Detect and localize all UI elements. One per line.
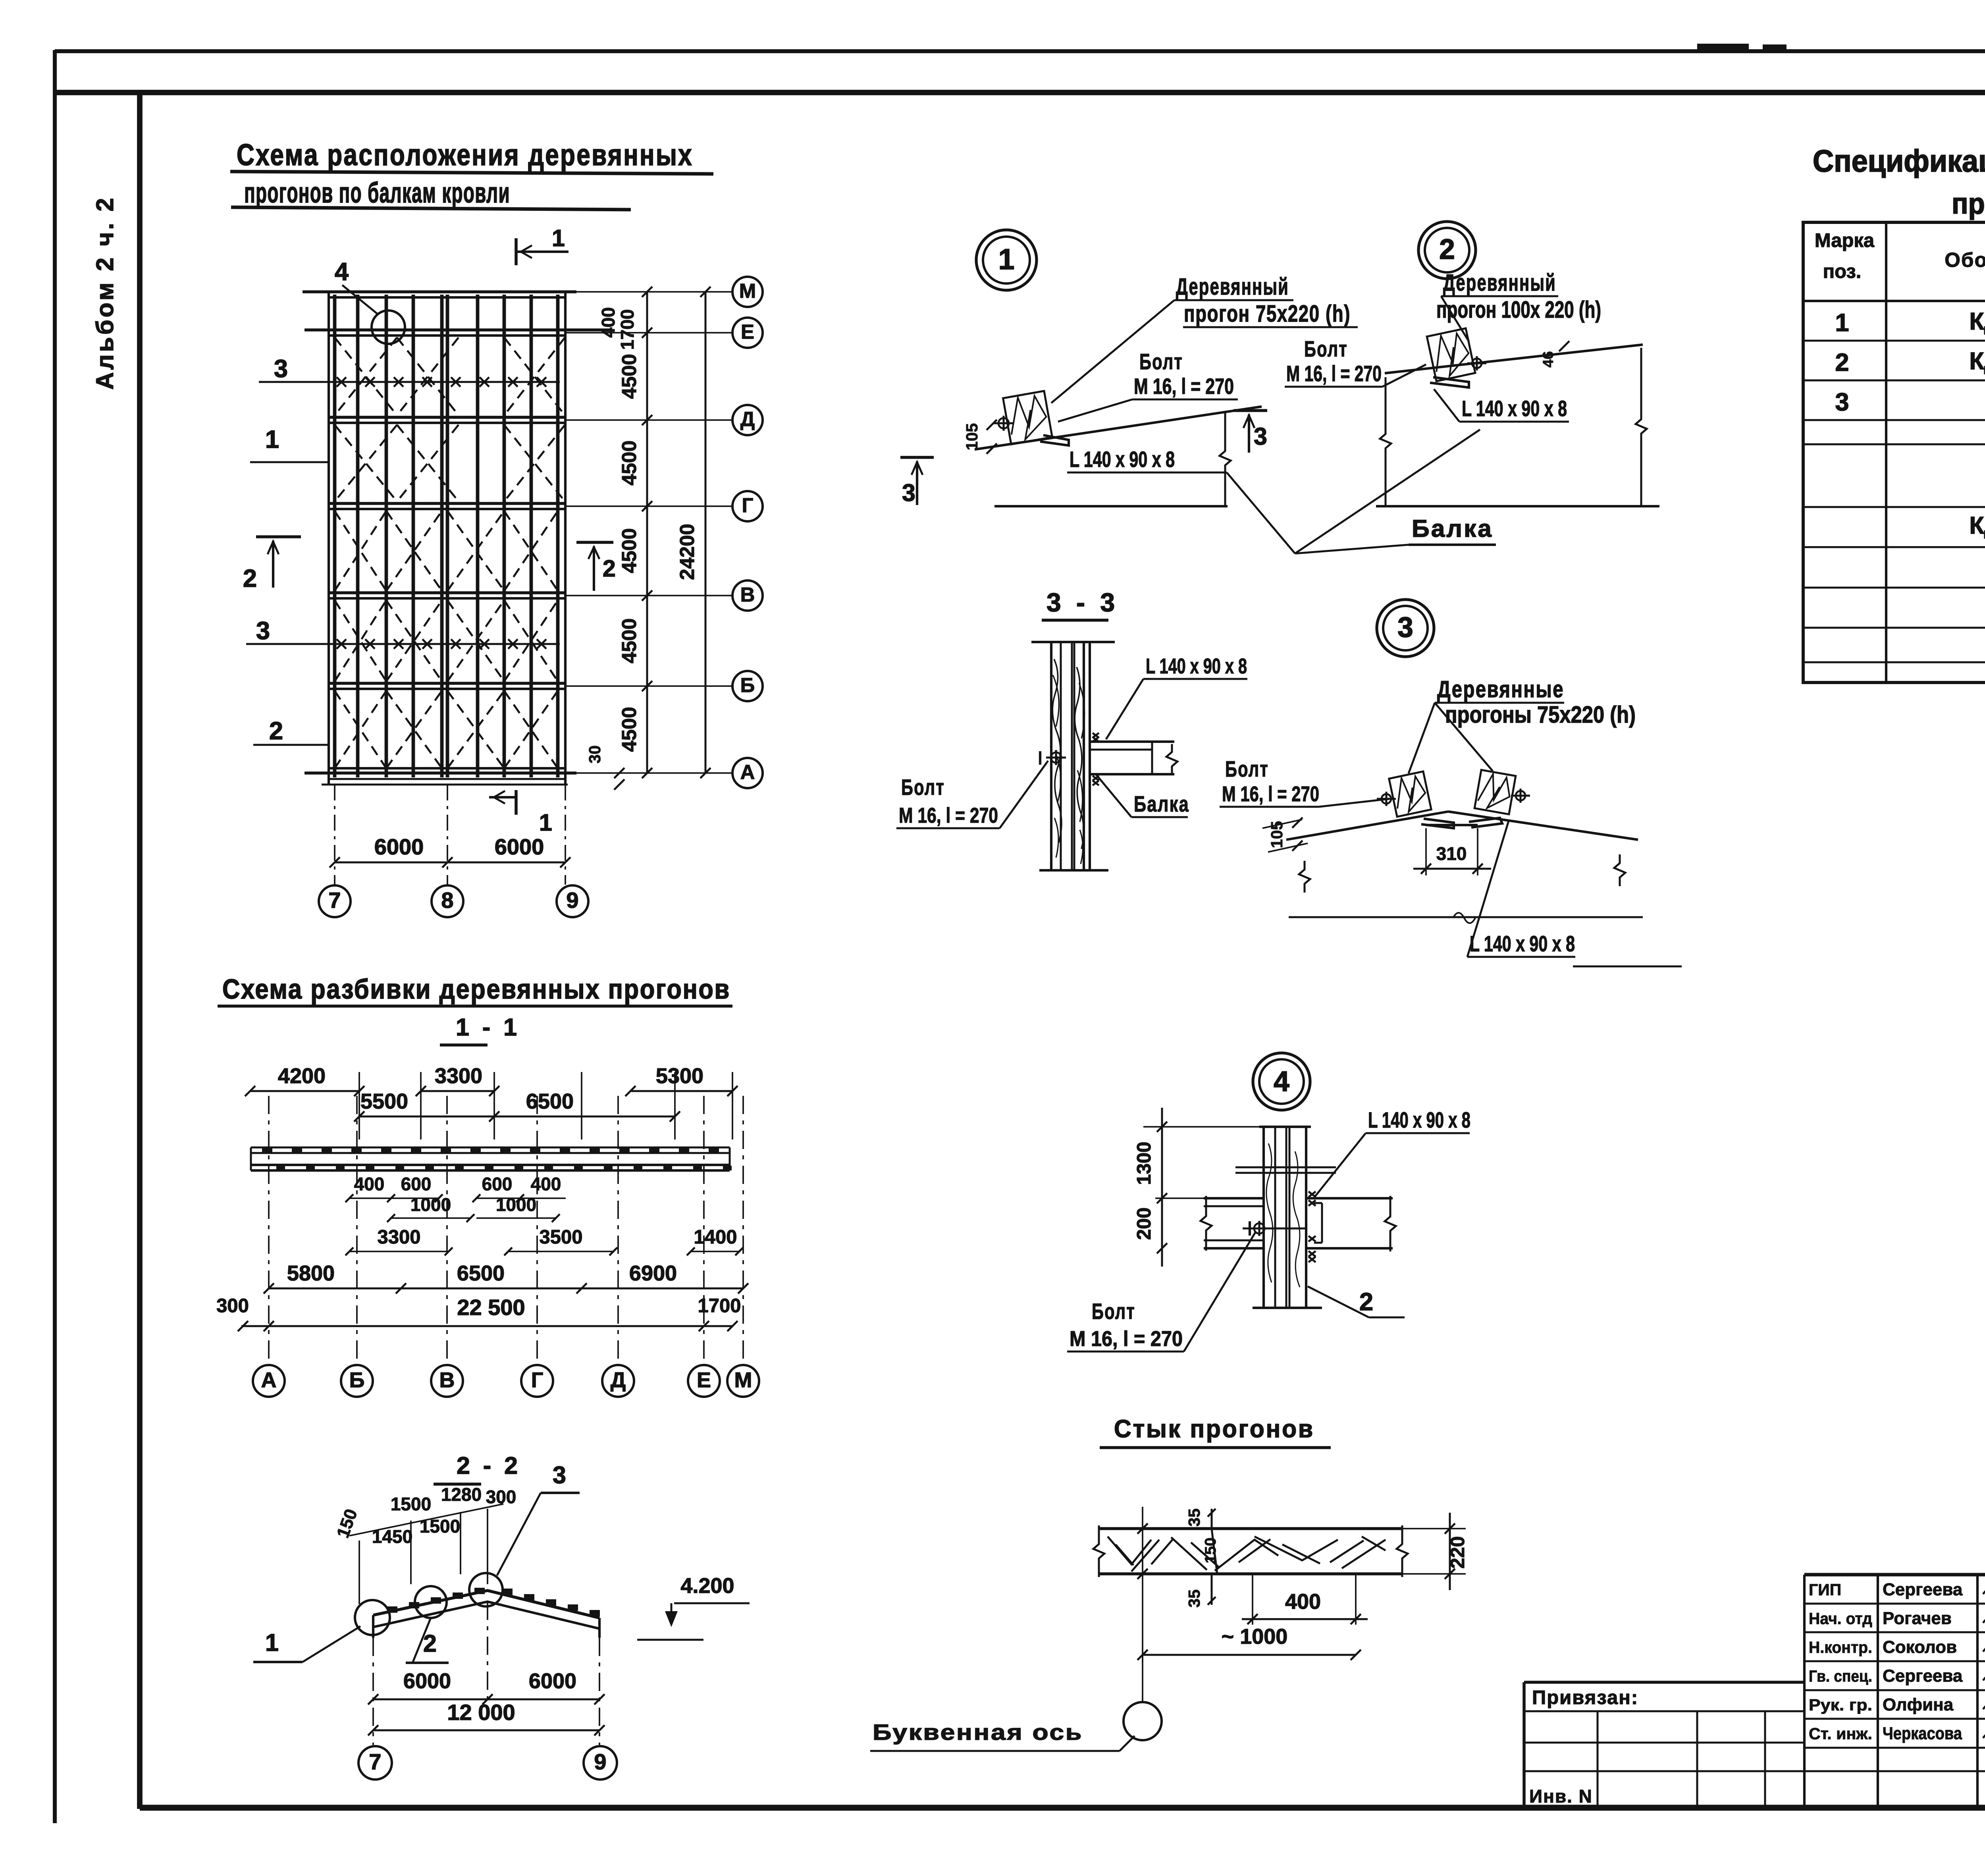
svg-text:Схема разбивки деревянных п: Схема разбивки деревянных прогонов [222,974,730,1005]
svg-text:А: А [261,1368,277,1392]
svg-text:М 16, l = 270: М 16, l = 270 [1222,782,1319,806]
svg-text:Деревянный: Деревянный [1443,270,1556,296]
svg-text:35: 35 [1185,1508,1203,1527]
svg-text:24200: 24200 [676,524,698,580]
svg-text:3: 3 [256,617,270,645]
svg-text:4: 4 [335,258,349,286]
svg-text:7: 7 [369,1749,381,1774]
svg-text:1700: 1700 [617,309,638,350]
svg-text:2: 2 [269,717,283,745]
svg-text:1300: 1300 [1133,1141,1155,1185]
svg-text:Деревянный: Деревянный [1176,274,1289,300]
svg-text:Соколов: Соколов [1883,1637,1957,1657]
svg-text:1450: 1450 [372,1526,412,1547]
svg-text:Деревянные: Деревянные [1437,676,1564,702]
svg-text:1: 1 [265,426,279,453]
svg-text:1 - 1: 1 - 1 [456,1014,520,1041]
svg-text:Спецификация к схеме рас: Спецификация к схеме расположения деревя… [1813,143,1985,178]
svg-text:Балка: Балка [1412,515,1493,542]
svg-text:5800: 5800 [287,1261,335,1285]
svg-text:Болт: Болт [1139,349,1183,374]
svg-text:200: 200 [1133,1207,1155,1240]
svg-text:1000: 1000 [410,1194,451,1215]
svg-text:Обозначение: Обозначение [1945,249,1985,271]
svg-text:4500: 4500 [618,440,640,485]
svg-text:М 16, l = 270: М 16, l = 270 [1134,374,1234,399]
svg-text:Г: Г [742,494,754,517]
svg-text:1500: 1500 [420,1516,460,1537]
svg-text:3: 3 [274,355,288,383]
svg-text:Н.контр.: Н.контр. [1809,1638,1872,1656]
svg-text:3: 3 [902,479,915,506]
svg-text:4500: 4500 [618,707,640,752]
svg-text:2 - 2: 2 - 2 [457,1452,521,1479]
svg-text:2: 2 [1439,234,1455,265]
svg-text:Рук. гр.: Рук. гр. [1809,1696,1872,1714]
svg-text:Инв. N: Инв. N [1529,1786,1593,1807]
svg-text:1500: 1500 [391,1494,431,1514]
svg-text:Болт: Болт [1225,756,1269,781]
svg-text:300: 300 [216,1295,249,1317]
svg-text:Сергеева: Сергеева [1883,1666,1963,1686]
svg-text:Е: Е [741,320,754,343]
svg-text:6000: 6000 [495,834,544,859]
svg-text:L 140 x 90 x 8: L 140 x 90 x 8 [1070,447,1175,472]
svg-text:300: 300 [486,1487,516,1507]
svg-text:7: 7 [328,888,341,913]
svg-text:1280: 1280 [441,1484,482,1505]
svg-text:400: 400 [531,1174,561,1194]
svg-text:КД-2: КД-2 [1970,347,1985,374]
svg-text:30: 30 [586,745,604,764]
svg-text:Олфина: Олфина [1883,1695,1954,1714]
svg-text:46: 46 [1540,351,1556,367]
svg-text:3: 3 [1835,388,1849,416]
svg-text:Д: Д [740,408,755,430]
svg-text:L 140 x 90 x 8: L 140 x 90 x 8 [1470,931,1575,956]
svg-text:2: 2 [1835,349,1849,376]
svg-text:5300: 5300 [656,1064,703,1088]
svg-text:150: 150 [1202,1537,1219,1563]
svg-text:Ст. инж.: Ст. инж. [1809,1725,1872,1743]
svg-text:Б: Б [349,1368,365,1392]
svg-text:6000: 6000 [403,1669,451,1693]
svg-text:6900: 6900 [629,1261,677,1285]
svg-text:Марка: Марка [1815,230,1875,251]
svg-text:600: 600 [482,1174,513,1194]
svg-text:L 140 x 90 x 8: L 140 x 90 x 8 [1462,396,1567,421]
svg-text:А: А [740,761,755,783]
svg-text:Балка: Балка [1134,791,1189,816]
svg-text:КД-2: КД-2 [1970,512,1985,539]
svg-text:КД-2: КД-2 [1970,308,1985,335]
svg-text:9: 9 [566,888,578,913]
svg-text:4: 4 [1274,1066,1289,1097]
svg-text:М: М [734,1368,752,1392]
svg-text:Е: Е [697,1368,711,1392]
svg-text:поз.: поз. [1823,261,1862,282]
svg-text:8: 8 [441,888,453,913]
svg-text:4.200: 4.200 [680,1574,734,1598]
svg-text:3: 3 [1397,612,1413,643]
svg-text:220: 220 [1447,1536,1469,1569]
svg-text:прогоны 75x220 (h): прогоны 75x220 (h) [1445,702,1636,728]
svg-text:3300: 3300 [435,1064,482,1088]
svg-text:4500: 4500 [618,528,640,573]
svg-text:Схема расположения деревянных: Схема расположения деревянных [237,138,693,172]
svg-text:4500: 4500 [618,354,640,399]
svg-text:М: М [739,280,756,302]
svg-text:310: 310 [1436,843,1467,864]
svg-text:4500: 4500 [618,618,640,663]
svg-text:Привязан:: Привязан: [1532,1687,1638,1708]
svg-text:9: 9 [594,1749,606,1774]
svg-text:1000: 1000 [496,1194,536,1215]
svg-text:Буквенная ось: Буквенная ось [873,1720,1083,1745]
svg-text:6500: 6500 [457,1261,505,1285]
svg-text:Черкасова: Черкасова [1883,1724,1962,1743]
svg-text:3 - 3: 3 - 3 [1046,588,1119,617]
svg-text:В: В [740,583,755,606]
svg-text:1: 1 [552,225,565,251]
svg-text:Стык прогонов: Стык прогонов [1114,1415,1314,1443]
svg-text:ГИП: ГИП [1809,1581,1841,1599]
svg-text:400: 400 [598,307,619,338]
svg-text:прогонов по балкам кров: прогонов по балкам кровли [1952,187,1985,220]
svg-text:В: В [439,1368,455,1392]
svg-text:Г: Г [531,1368,543,1392]
svg-text:5500: 5500 [360,1089,408,1113]
svg-text:22 500: 22 500 [457,1295,525,1320]
svg-text:1: 1 [265,1629,279,1656]
svg-text:М 16, l = 270: М 16, l = 270 [1286,361,1382,386]
svg-text:Нач. отд: Нач. отд [1809,1610,1872,1628]
svg-text:35: 35 [1185,1589,1203,1608]
svg-text:Болт: Болт [901,775,945,800]
svg-text:Д: Д [611,1368,626,1392]
svg-text:Альбом 2 ч. 2: Альбом 2 ч. 2 [91,196,118,390]
svg-text:6500: 6500 [526,1089,574,1113]
svg-text:Болт: Болт [1304,336,1348,361]
svg-text:1700: 1700 [698,1295,741,1317]
svg-text:~ 1000: ~ 1000 [1222,1625,1288,1648]
svg-text:6000: 6000 [374,834,424,859]
svg-text:6000: 6000 [529,1669,576,1693]
svg-text:2: 2 [1359,1288,1373,1316]
svg-text:400: 400 [354,1174,385,1194]
svg-text:L 140 x 90 x 8: L 140 x 90 x 8 [1368,1107,1470,1132]
svg-text:600: 600 [401,1174,432,1194]
svg-text:М 16, l = 270: М 16, l = 270 [899,804,998,827]
svg-text:3500: 3500 [539,1226,582,1248]
svg-text:Гв. спец.: Гв. спец. [1809,1667,1872,1685]
svg-text:1: 1 [998,243,1015,276]
svg-text:прогон 100x 220 (h): прогон 100x 220 (h) [1436,297,1601,323]
svg-text:4200: 4200 [278,1064,326,1088]
svg-text:105: 105 [963,423,981,450]
svg-text:3300: 3300 [377,1226,420,1248]
svg-text:3: 3 [1254,423,1267,450]
svg-text:М 16, l = 270: М 16, l = 270 [1070,1327,1183,1351]
svg-text:Рогачев: Рогачев [1883,1609,1952,1628]
svg-text:400: 400 [1285,1590,1321,1614]
svg-text:Б: Б [740,674,755,696]
svg-text:2: 2 [603,555,616,582]
svg-text:1: 1 [539,810,552,836]
svg-text:1400: 1400 [694,1226,737,1248]
svg-text:2: 2 [243,565,257,592]
svg-text:Болт: Болт [1092,1299,1135,1324]
svg-text:3: 3 [553,1461,566,1488]
svg-text:прогон 75x220 (h): прогон 75x220 (h) [1184,301,1351,327]
svg-text:1: 1 [1835,309,1849,337]
svg-text:L 140 x 90 x 8: L 140 x 90 x 8 [1146,654,1247,678]
svg-text:прогонов по балкам кровли: прогонов по балкам кровли [244,177,510,209]
svg-text:12 000: 12 000 [447,1700,515,1725]
svg-text:Сергеева: Сергеева [1883,1580,1963,1599]
